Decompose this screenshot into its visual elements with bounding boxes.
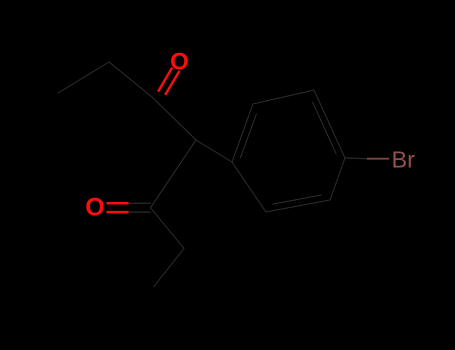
svg-text:Br: Br <box>392 146 416 172</box>
double bond C5=O2 <box>107 203 151 212</box>
bond ring-Br <box>345 157 389 160</box>
bond CH2-CH3 bottom ethyl <box>154 249 185 288</box>
bond C5-CH2 bottom ethyl <box>151 208 185 249</box>
bond C4-ring ipso carbon <box>196 140 232 162</box>
bond CH3-CH2 top ethyl <box>58 62 109 93</box>
double bond C1=O1 <box>158 68 179 95</box>
aromatic inner bond left <box>240 114 256 158</box>
bond CH2-C1 top ethyl to carbonyl C1 <box>109 62 152 97</box>
benzene ring outline <box>232 90 345 212</box>
svg-text:O: O <box>170 49 189 76</box>
svg-text:O: O <box>85 194 104 222</box>
aromatic inner bond upper right <box>313 102 337 154</box>
aromatic inner bond bottom <box>273 195 322 204</box>
bond C4-C5 central carbon to carbonyl C5 <box>151 140 197 208</box>
bond C1-C4 carbonyl to central carbon <box>152 97 196 140</box>
